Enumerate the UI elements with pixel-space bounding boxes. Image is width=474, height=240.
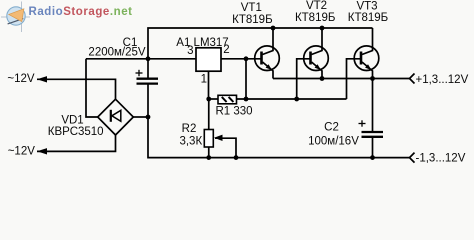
svg-text:VT2: VT2 <box>306 0 327 12</box>
svg-text:+1,3...12V: +1,3...12V <box>416 74 469 86</box>
wire R2 wiper <box>215 138 236 157</box>
wire R2 top lead <box>208 99 210 130</box>
svg-text:VT1: VT1 <box>241 2 262 14</box>
svg-text:RadioStorage.net: RadioStorage.net <box>29 6 133 18</box>
svg-text:~12V: ~12V <box>8 145 36 157</box>
transistor VT2 <box>304 28 329 79</box>
node C2 bottom <box>370 155 375 160</box>
node wiper bottom <box>234 155 239 160</box>
node VT1 collector <box>271 26 276 31</box>
logo circle <box>7 7 25 25</box>
svg-text:VT3: VT3 <box>356 1 377 13</box>
wire collector rail <box>148 28 373 59</box>
wire ac top <box>37 79 116 100</box>
svg-text:КТ819Б: КТ819Б <box>232 14 272 26</box>
node base <box>244 56 249 61</box>
potentiometer R2 <box>204 130 213 148</box>
terminal plus out <box>410 74 415 84</box>
regulator A1 LM317 <box>196 48 221 71</box>
wire riser base node <box>245 59 247 99</box>
wire C1 bottom lead <box>147 84 149 117</box>
terminal ac bottom <box>37 148 47 154</box>
svg-text:C2: C2 <box>324 121 339 133</box>
svg-text:-1,3...12V: -1,3...12V <box>416 153 466 165</box>
svg-text:R2: R2 <box>182 123 197 135</box>
svg-text:VD1: VD1 <box>61 115 83 127</box>
node adj <box>206 97 211 102</box>
wire bridge to minus rail <box>133 116 148 118</box>
wire riser VT3 base <box>347 59 362 99</box>
wire C2 top lead <box>372 79 374 132</box>
node R1 right <box>244 97 249 102</box>
terminal ac top <box>37 76 47 82</box>
wire LM317 output to VT1 base <box>222 58 262 60</box>
svg-text:3,3К: 3,3К <box>179 135 202 147</box>
resistor R1 330 <box>218 95 237 104</box>
wire input rail <box>86 58 196 60</box>
node input <box>146 56 151 61</box>
wire riser VT2 base <box>297 59 311 99</box>
terminal minus out <box>410 153 415 163</box>
logo emitter line <box>8 19 24 24</box>
wire ac bottom <box>37 135 116 152</box>
capacitor C1 <box>137 79 159 84</box>
transistor VT3 <box>354 28 379 79</box>
wire C1 top lead <box>147 59 149 78</box>
bridge rectifier VD1 <box>98 99 134 135</box>
svg-text:2200м/25V: 2200м/25V <box>88 47 145 59</box>
svg-text:A1 LM317: A1 LM317 <box>176 37 228 49</box>
wire negative rail <box>148 117 410 158</box>
wire C2 bottom lead <box>372 136 374 157</box>
wire adj bus <box>209 98 218 100</box>
node bridge minus <box>146 115 151 120</box>
svg-text:КТ819Б: КТ819Б <box>295 12 335 24</box>
logo crosshair <box>1 2 30 33</box>
svg-text:КВРС3510: КВРС3510 <box>48 126 104 138</box>
svg-text:3: 3 <box>187 45 193 57</box>
wire left riser to bridge plus <box>86 59 98 117</box>
svg-text:КТ819Б: КТ819Б <box>348 12 388 24</box>
wire emitter rail <box>273 78 410 80</box>
svg-text:100м/16V: 100м/16V <box>308 136 359 148</box>
logo triangle <box>9 9 24 22</box>
svg-text:1: 1 <box>201 73 207 85</box>
transistor VT1 <box>255 28 280 79</box>
node C2 top <box>370 76 375 81</box>
capacitor C2 <box>362 132 384 137</box>
svg-text:R1 330: R1 330 <box>215 106 252 118</box>
node bus VT2 riser <box>294 97 299 102</box>
wire R1 right to bus <box>237 98 347 100</box>
node R2 bottom <box>206 155 211 160</box>
svg-text:2: 2 <box>223 44 229 56</box>
wire LM317 pin1 down <box>208 71 210 99</box>
wire R2 bottom lead <box>208 147 210 158</box>
node VT2 emitter <box>320 76 325 81</box>
svg-text:~12V: ~12V <box>7 73 35 85</box>
node VT2 collector <box>320 26 325 31</box>
